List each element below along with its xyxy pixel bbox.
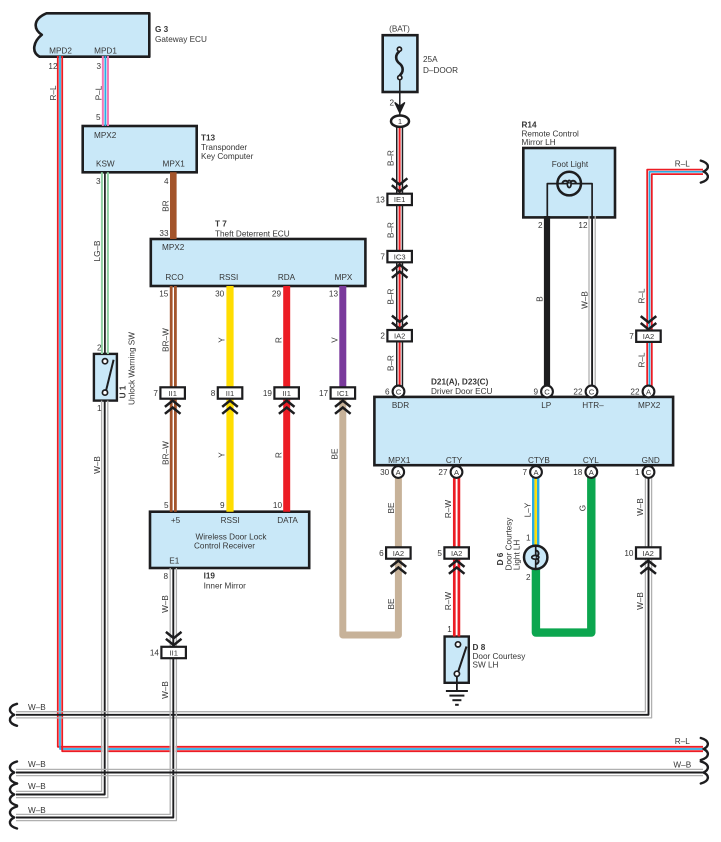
wire Y from T7 RSSI to receiver RSSI	[226, 286, 233, 512]
door courtesy light D6 lamp	[524, 546, 547, 569]
connector 1 ellipse	[391, 116, 409, 127]
fuse 25A D-DOOR box	[383, 35, 418, 92]
svg-text:IA2: IA2	[394, 332, 405, 341]
svg-text:CTY: CTY	[446, 456, 463, 465]
svg-text:R–L: R–L	[675, 737, 690, 746]
torn edge R-L right bottom	[701, 738, 708, 760]
svg-text:BR: BR	[162, 200, 171, 211]
svg-text:14: 14	[150, 649, 160, 658]
svg-text:R–L: R–L	[675, 160, 690, 169]
svg-text:II1: II1	[169, 648, 177, 657]
svg-text:15: 15	[159, 290, 169, 299]
svg-text:V: V	[331, 337, 340, 343]
svg-text:4: 4	[164, 177, 169, 186]
svg-text:29: 29	[272, 290, 282, 299]
svg-text:IA2: IA2	[393, 549, 404, 558]
wire BR-W from T7 RCO to receiver +5	[170, 286, 173, 512]
svg-text:C: C	[589, 387, 595, 396]
svg-text:MPX2: MPX2	[638, 401, 661, 410]
svg-text:MPX1: MPX1	[388, 456, 411, 465]
junction 19 II1	[274, 387, 299, 398]
svg-text:25A: 25A	[423, 55, 438, 64]
svg-text:BE: BE	[387, 598, 396, 609]
svg-text:B–R: B–R	[387, 288, 396, 304]
svg-text:RCO: RCO	[165, 273, 183, 282]
svg-text:5: 5	[96, 113, 101, 122]
wire R from T7 RDA to receiver DATA	[283, 286, 290, 512]
svg-text:Unlock Warning SW: Unlock Warning SW	[128, 332, 137, 405]
svg-text:BR–W: BR–W	[162, 328, 171, 352]
svg-text:5: 5	[437, 549, 442, 558]
wire P-L from G3 MPD1 to T13 pin5	[102, 56, 104, 126]
svg-text:6: 6	[379, 549, 384, 558]
pin 1 C GND	[643, 466, 655, 478]
junction 7 II1	[160, 387, 185, 398]
svg-text:27: 27	[438, 468, 448, 477]
door courtesy switch D8 box	[445, 637, 469, 683]
svg-text:+5: +5	[171, 516, 181, 525]
svg-text:E1: E1	[169, 556, 179, 565]
svg-text:Gateway ECU: Gateway ECU	[155, 35, 207, 44]
D8 switch blade	[458, 647, 466, 672]
svg-text:7: 7	[380, 253, 385, 262]
svg-text:LP: LP	[541, 401, 552, 410]
junction 5 IA2	[444, 547, 469, 558]
wire BR from T13 MPX1 to T7 pin33	[170, 172, 177, 239]
wire V from T7 MPX to junction IC1	[339, 286, 346, 393]
junction 8 II1	[218, 387, 243, 398]
svg-text:R–L: R–L	[637, 288, 646, 303]
svg-text:7: 7	[522, 468, 527, 477]
svg-text:W–B: W–B	[28, 806, 46, 815]
svg-text:MPD2: MPD2	[49, 47, 72, 56]
ground symbol below D8	[456, 676, 458, 691]
svg-text:D–DOOR: D–DOOR	[423, 66, 458, 75]
svg-text:MPD1: MPD1	[94, 47, 117, 56]
svg-text:3: 3	[96, 177, 101, 186]
svg-text:7: 7	[629, 332, 634, 341]
svg-text:W–B: W–B	[28, 760, 46, 769]
svg-text:LG–B: LG–B	[93, 240, 102, 261]
svg-text:MPX1: MPX1	[163, 160, 186, 169]
svg-text:1: 1	[398, 117, 402, 126]
svg-text:W–B: W–B	[28, 782, 46, 791]
svg-text:19: 19	[263, 389, 273, 398]
svg-text:18: 18	[573, 468, 583, 477]
theft deterrent ECU T7 box	[151, 239, 366, 286]
svg-text:W–B: W–B	[636, 498, 645, 516]
wire R-L from torn edge top right to door ECU MPX2	[647, 170, 703, 390]
svg-text:30: 30	[215, 290, 225, 299]
svg-text:MPX2: MPX2	[94, 131, 117, 140]
svg-text:C: C	[396, 387, 402, 396]
svg-text:12: 12	[578, 221, 588, 230]
torn edge W-B right bottom	[701, 762, 708, 784]
svg-text:Mirror LH: Mirror LH	[522, 138, 556, 147]
svg-text:17: 17	[319, 389, 329, 398]
driver door ECU box D21/D23	[374, 397, 673, 465]
svg-text:33: 33	[159, 229, 169, 238]
svg-text:I19: I19	[204, 572, 216, 581]
pin 30 A MPX1	[392, 466, 404, 478]
svg-text:R–L: R–L	[49, 85, 58, 100]
svg-text:R: R	[274, 337, 283, 343]
svg-text:GND: GND	[642, 456, 660, 465]
svg-text:W–B: W–B	[161, 595, 170, 613]
wire BE from IC1 to door ECU MPX1 via IA2	[343, 393, 399, 635]
svg-text:12: 12	[48, 62, 58, 71]
svg-text:2: 2	[97, 343, 102, 352]
pin 27 A CTY	[451, 466, 463, 478]
svg-text:SW LH: SW LH	[473, 660, 499, 669]
svg-text:CTYB: CTYB	[528, 456, 550, 465]
svg-text:B–R: B–R	[387, 222, 396, 238]
fuse symbol	[396, 47, 402, 80]
pin 7 A CTYB	[530, 466, 542, 478]
svg-text:5: 5	[164, 501, 169, 510]
wire W-B from receiver E1 down and left to torn edge	[16, 568, 170, 814]
svg-text:10: 10	[273, 501, 283, 510]
svg-text:8: 8	[211, 389, 216, 398]
svg-text:W–B: W–B	[161, 681, 170, 699]
junction 2 IA2	[392, 316, 408, 322]
svg-text:C: C	[544, 387, 550, 396]
svg-text:2: 2	[389, 99, 394, 108]
pin 18 A CYL	[585, 466, 597, 478]
svg-text:(BAT): (BAT)	[389, 25, 410, 34]
pin 9 C LP	[541, 386, 553, 398]
svg-text:9: 9	[220, 501, 225, 510]
svg-text:1: 1	[97, 404, 102, 413]
svg-text:IC3: IC3	[394, 252, 406, 261]
svg-text:BR–W: BR–W	[162, 441, 171, 465]
svg-text:Theft Deterrent ECU: Theft Deterrent ECU	[215, 229, 290, 238]
wire L-Y from door ECU CTYB to courtesy light D6	[532, 473, 534, 548]
gateway ECU G3 box (torn left edge)	[34, 13, 149, 56]
svg-text:R: R	[274, 452, 283, 458]
svg-text:U 1: U 1	[119, 385, 128, 398]
svg-text:6: 6	[385, 388, 390, 397]
svg-text:30: 30	[380, 468, 390, 477]
svg-text:R–L: R–L	[637, 352, 646, 367]
wire crossing masks	[102, 743, 107, 755]
svg-text:DATA: DATA	[277, 516, 298, 525]
foot light lamp	[557, 172, 581, 196]
svg-text:RSSI: RSSI	[221, 516, 240, 525]
torn edge W-B left 1	[10, 704, 17, 726]
svg-text:Inner Mirror: Inner Mirror	[204, 582, 247, 591]
svg-text:IC1: IC1	[337, 389, 349, 398]
junction 14 II1	[166, 632, 182, 638]
svg-text:P–L: P–L	[94, 85, 103, 100]
svg-text:R–W: R–W	[444, 500, 453, 518]
svg-text:T 7: T 7	[215, 220, 227, 229]
pin 22 A MPX2	[643, 386, 655, 398]
wire R-W from door ECU CTY to D8 pin1	[453, 473, 456, 637]
svg-text:BE: BE	[387, 502, 396, 513]
arrow from fuse pin2	[395, 103, 404, 113]
svg-text:W–B: W–B	[636, 592, 645, 610]
svg-text:II1: II1	[168, 389, 176, 398]
wire fuse to connector 1	[399, 80, 401, 116]
junction 10 IA2	[636, 547, 661, 558]
svg-text:RSSI: RSSI	[219, 273, 238, 282]
svg-text:B–R: B–R	[387, 150, 396, 166]
svg-text:G: G	[579, 505, 588, 511]
svg-text:BE: BE	[331, 448, 340, 459]
svg-text:Control Receiver: Control Receiver	[194, 542, 255, 551]
junction 17 IC1	[331, 387, 356, 398]
svg-text:BDR: BDR	[392, 401, 409, 410]
svg-text:IA2: IA2	[642, 549, 653, 558]
svg-text:13: 13	[376, 195, 386, 204]
junction 6 IA2	[386, 547, 411, 558]
svg-text:RDA: RDA	[278, 273, 296, 282]
svg-text:2: 2	[526, 573, 531, 582]
wire W-B horizontal to torn edges left and right	[16, 768, 703, 770]
svg-text:13: 13	[329, 290, 339, 299]
torn edge R-L top right	[701, 161, 708, 183]
svg-text:22: 22	[630, 388, 640, 397]
svg-text:Remote Control: Remote Control	[522, 129, 580, 138]
svg-text:W–B: W–B	[580, 291, 589, 309]
wire B from foot light pin2 to door ECU LP	[544, 216, 550, 390]
svg-text:Y: Y	[217, 452, 226, 458]
svg-text:1: 1	[447, 625, 452, 634]
torn edge W-B left 2	[10, 762, 17, 784]
svg-text:Y: Y	[217, 337, 226, 343]
svg-text:7: 7	[153, 389, 158, 398]
junction 7 IC3	[387, 251, 412, 262]
svg-text:HTR–: HTR–	[582, 401, 604, 410]
wire B-R from connector 1 to door ECU BDR	[396, 126, 398, 390]
svg-text:8: 8	[163, 572, 168, 581]
svg-text:Wireless Door Lock: Wireless Door Lock	[196, 532, 268, 541]
foot light leads	[547, 184, 557, 216]
svg-text:Light LH: Light LH	[513, 540, 522, 571]
wire W-B from door ECU GND down and left to torn edge	[16, 473, 645, 712]
pin 22 C HTR-	[586, 386, 598, 398]
wire LG-B from T13 KSW to U1 pin2	[101, 172, 103, 354]
svg-text:Foot Light: Foot Light	[552, 160, 589, 169]
svg-text:IA2: IA2	[451, 549, 462, 558]
svg-text:II1: II1	[226, 389, 234, 398]
wireless door lock control receiver box	[150, 512, 309, 568]
svg-text:W–B: W–B	[93, 456, 102, 474]
svg-text:1: 1	[526, 534, 531, 543]
svg-text:W–B: W–B	[673, 761, 691, 770]
svg-text:KSW: KSW	[96, 160, 115, 169]
junction 7 IA2 right	[641, 316, 657, 322]
svg-text:MPX: MPX	[335, 273, 353, 282]
svg-text:MPX2: MPX2	[162, 243, 185, 252]
remote control mirror R14 box	[523, 148, 615, 217]
wire W-B from U1 pin1 down and left to torn edge	[16, 401, 102, 792]
junction 13 IE1	[392, 178, 408, 184]
svg-text:1: 1	[635, 468, 640, 477]
svg-text:10: 10	[624, 549, 634, 558]
transponder key computer T13 box	[83, 126, 197, 172]
svg-text:9: 9	[533, 388, 538, 397]
svg-text:L–Y: L–Y	[523, 502, 532, 517]
svg-text:C: C	[646, 468, 652, 477]
U1 switch blade	[106, 360, 113, 390]
svg-text:D21(A), D23(C): D21(A), D23(C)	[431, 378, 489, 387]
svg-text:Key Computer: Key Computer	[201, 152, 254, 161]
svg-text:B: B	[536, 296, 545, 302]
svg-text:T13: T13	[201, 134, 216, 143]
torn edge W-B left 3	[10, 784, 17, 806]
svg-text:R14: R14	[522, 120, 537, 129]
svg-text:2: 2	[380, 332, 385, 341]
svg-text:IE1: IE1	[394, 195, 405, 204]
wire W-B from foot light pin12 to door ECU HTR-	[588, 216, 590, 390]
wire G from D6 to door ECU CYL	[536, 473, 591, 633]
pin 6 C BDR	[393, 386, 405, 398]
svg-text:2: 2	[538, 221, 543, 230]
svg-text:22: 22	[573, 388, 583, 397]
wire R-L from G3 MPD2 down and right to torn edge	[58, 56, 703, 747]
svg-text:CYL: CYL	[583, 456, 599, 465]
svg-text:IA2: IA2	[643, 332, 654, 341]
svg-text:G 3: G 3	[155, 25, 169, 34]
svg-text:B–R: B–R	[387, 355, 396, 371]
unlock warning switch U1 box	[94, 354, 117, 401]
svg-text:Driver Door ECU: Driver Door ECU	[431, 387, 493, 396]
svg-text:II1: II1	[282, 389, 290, 398]
svg-text:W–B: W–B	[28, 703, 46, 712]
svg-text:R–W: R–W	[444, 592, 453, 610]
svg-text:3: 3	[96, 62, 101, 71]
torn edge W-B left 4	[10, 807, 17, 829]
